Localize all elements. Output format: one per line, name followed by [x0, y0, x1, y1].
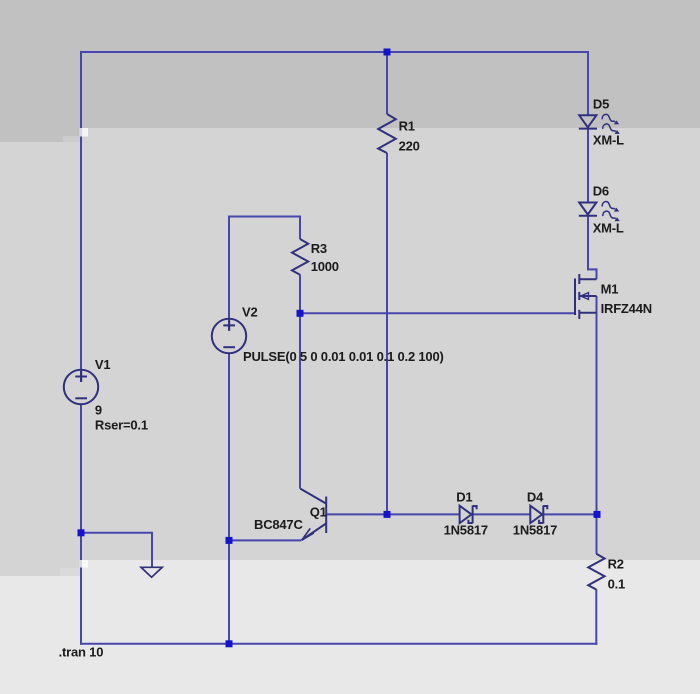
- svg-text:D5: D5: [593, 97, 609, 112]
- svg-text:PULSE(0 5 0 0.01 0.01 0.1 0.2: PULSE(0 5 0 0.01 0.01 0.1 0.2 100): [243, 349, 444, 364]
- wire R2 bottom lead: [595, 589, 597, 645]
- wire R3 top lead: [299, 216, 301, 240]
- svg-text:XM-L: XM-L: [593, 133, 624, 148]
- svg-text:BC847C: BC847C: [254, 517, 303, 532]
- wire right vertical top (to D5): [587, 51, 589, 115]
- mosfet M1 drain lead: [579, 278, 596, 280]
- V1 minus: [75, 397, 87, 399]
- wire V2 top lead horizontal: [228, 216, 301, 218]
- diode D4: [530, 506, 542, 524]
- wire left vertical upper (V1 top lead): [80, 51, 82, 382]
- mosfet M1 bulk lead with arrow: [580, 295, 596, 297]
- transistor Q1 emitter diagonal: [302, 524, 327, 541]
- wire gate horizontal: [300, 312, 575, 314]
- svg-text:IRFZ44N: IRFZ44N: [601, 301, 652, 316]
- svg-text:.tran 10: .tran 10: [59, 644, 104, 659]
- smudge artifact top boundary: [80, 128, 88, 137]
- resistor R2: [588, 554, 604, 590]
- svg-text:0.1: 0.1: [608, 577, 625, 592]
- wire M1 source down to R2: [596, 296, 598, 554]
- svg-text:R3: R3: [311, 241, 327, 256]
- LED D5 light arrows: [602, 114, 615, 121]
- svg-text:Q1: Q1: [310, 504, 327, 519]
- wire ground tap vertical: [151, 532, 153, 567]
- background band top: [0, 0, 700, 128]
- wire R3 bottom lead: [299, 275, 301, 314]
- wire top rail: [80, 51, 589, 53]
- mosfet M1 channel segments: [578, 274, 580, 284]
- svg-text:XM-L: XM-L: [593, 221, 624, 236]
- junction V2 lead / emitter wire: [226, 537, 233, 544]
- V2 minus: [223, 346, 235, 348]
- ground symbol: [141, 567, 162, 577]
- wire R1 top lead: [386, 52, 388, 114]
- background light strip top-left: [63, 136, 83, 142]
- svg-text:9: 9: [95, 403, 102, 418]
- svg-text:Rser=0.1: Rser=0.1: [95, 418, 148, 433]
- wire ground tap horizontal: [81, 532, 152, 534]
- svg-text:1000: 1000: [311, 259, 339, 274]
- wire D1 to D4: [473, 513, 530, 515]
- wire bottom rail: [80, 643, 597, 645]
- wire Q1 emitter horizontal: [229, 539, 301, 541]
- svg-text:M1: M1: [601, 281, 619, 296]
- smudge artifact bottom boundary: [80, 560, 88, 568]
- junction diode wire / M1 source: [594, 511, 601, 518]
- wire R1 bottom lead to base node: [386, 153, 388, 514]
- wire left vertical lower (V1 bottom lead): [80, 404, 82, 645]
- junction R3 / gate / collector: [297, 310, 304, 317]
- junction left wire / ground tap: [78, 529, 85, 536]
- svg-text:R1: R1: [399, 119, 415, 134]
- transistor Q1 bar: [325, 497, 327, 534]
- transistor Q1 emitter arrow: [302, 528, 314, 540]
- svg-text:1N5817: 1N5817: [513, 523, 557, 538]
- svg-text:V1: V1: [95, 357, 111, 372]
- LED D6 light arrows: [602, 202, 615, 209]
- wire V2 bottom lead: [228, 353, 230, 645]
- voltage source V1 circle: [64, 370, 98, 404]
- svg-text:220: 220: [399, 138, 420, 153]
- wire drain jog horizontal: [587, 268, 597, 270]
- diode D1: [460, 506, 472, 524]
- voltage source V2 circle: [212, 319, 246, 353]
- transistor Q1 collector diagonal: [300, 489, 326, 504]
- LED D6: [579, 203, 596, 215]
- wire D5 to D6: [587, 129, 589, 203]
- resistor R1: [378, 114, 396, 153]
- svg-text:V2: V2: [242, 305, 258, 320]
- resistor R3: [292, 239, 308, 275]
- svg-text:D1: D1: [456, 490, 472, 505]
- wire Q1 base horizontal: [327, 513, 460, 515]
- LED D5: [579, 115, 596, 127]
- wire drain jog vertical: [596, 268, 598, 279]
- wire V2 top lead vertical: [228, 217, 230, 331]
- background band bottom: [0, 560, 700, 694]
- svg-text:D6: D6: [593, 183, 609, 198]
- wire Q1 collector vertical: [299, 313, 301, 488]
- V2 plus: [223, 320, 235, 331]
- background light strip bottom-left: [60, 568, 80, 576]
- mosfet M1 source lead: [579, 312, 596, 314]
- V1 plus: [75, 371, 87, 382]
- junction top rail / R1: [384, 49, 391, 56]
- junction bottom rail / V2: [226, 640, 233, 647]
- wire D6 to M1 drain jog: [587, 216, 589, 270]
- mosfet M1 gate bar: [574, 279, 576, 316]
- junction base / R1 bottom: [384, 511, 391, 518]
- svg-text:D4: D4: [527, 490, 544, 505]
- wire D4 to source node: [544, 513, 598, 515]
- svg-text:1N5817: 1N5817: [444, 523, 488, 538]
- svg-text:R2: R2: [608, 557, 624, 572]
